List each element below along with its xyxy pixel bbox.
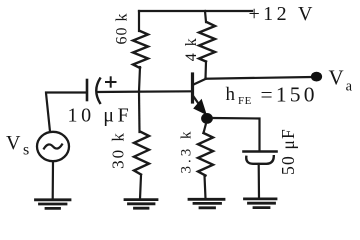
wire 60k bottom stub (139, 67, 140, 92)
wire 50uF to ground (258, 164, 260, 198)
transistor Q1 collector lead (194, 79, 207, 85)
capacitor C2 50uF top plate (244, 150, 277, 153)
capacitor C1 10uF right plate (96, 79, 100, 104)
wire +12V top rail (139, 10, 252, 12)
wire Vs bottom (52, 161, 54, 199)
ground for 3.3k (189, 199, 224, 208)
transistor Q1 emitter arrow (195, 101, 205, 113)
ground for 30k (125, 200, 157, 209)
transistor Q1 emitter lead (194, 97, 205, 112)
wire Vs to capacitor (46, 93, 86, 132)
wire collector to Va (206, 77, 312, 79)
wire 30k bottom stub (140, 176, 141, 200)
capacitor C1 10uF left plate (86, 80, 89, 100)
wire emitter dot to 50uF cap (213, 118, 260, 150)
node dot emitter junction (201, 113, 213, 124)
svg-text:50 μF: 50 μF (278, 128, 298, 175)
resistor R1 60k (133, 31, 148, 68)
svg-text:60 k: 60 k (114, 13, 131, 45)
svg-text:10 μF: 10 μF (68, 105, 133, 127)
wire 60k top stub (138, 11, 140, 31)
resistor R4 3.3k (198, 133, 213, 176)
source Vs sine tilde (44, 144, 62, 148)
wire base line (cap to transistor base) (97, 90, 192, 93)
svg-text:h: h (226, 84, 236, 105)
svg-text:Va: Va (329, 66, 353, 95)
plus sign of C1 (106, 77, 116, 86)
wire 30k top stub (138, 92, 141, 133)
node dot Va terminal (311, 72, 322, 82)
wire 3.3k bottom stub (205, 176, 206, 199)
svg-text:+12 V: +12 V (249, 3, 316, 25)
wire 4k top stub (205, 11, 206, 22)
svg-text:4 k: 4 k (183, 37, 200, 62)
source Vs circle (37, 132, 69, 161)
resistor R2 30k (134, 132, 149, 174)
wire emitter dot to 3.3k (204, 124, 207, 134)
svg-text:30 k: 30 k (108, 131, 127, 169)
wire 4k bottom stub (204, 62, 207, 79)
svg-text:3.3 k: 3.3 k (178, 129, 194, 174)
svg-text:FE: FE (238, 95, 252, 107)
ground for Vs (36, 200, 71, 209)
ground for 50uF (245, 199, 277, 208)
capacitor C2 50uF bottom plate (246, 156, 274, 164)
svg-text:=150: =150 (261, 83, 318, 107)
svg-text:Vs: Vs (6, 132, 29, 159)
resistor R3 4k (199, 22, 215, 62)
transistor Q1 base bar (191, 74, 194, 102)
